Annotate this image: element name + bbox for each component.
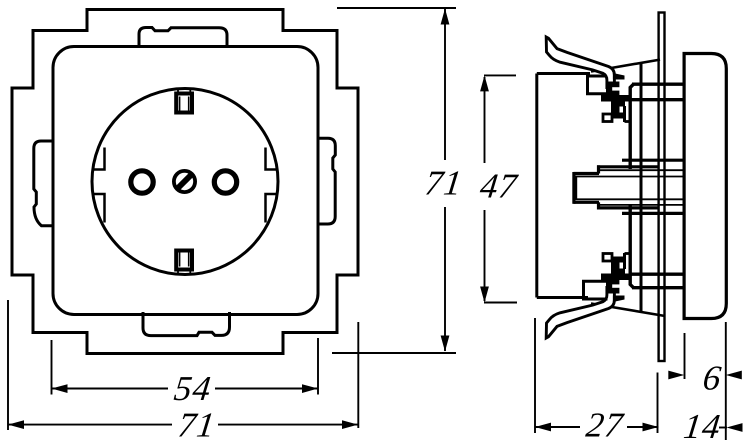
svg-text:54: 54 [172,369,214,408]
svg-text:27: 27 [584,406,626,440]
svg-text:47: 47 [478,167,520,206]
svg-text:6: 6 [701,359,724,398]
svg-text:71: 71 [176,406,218,440]
svg-text:14: 14 [682,407,724,440]
svg-text:71: 71 [423,164,465,203]
